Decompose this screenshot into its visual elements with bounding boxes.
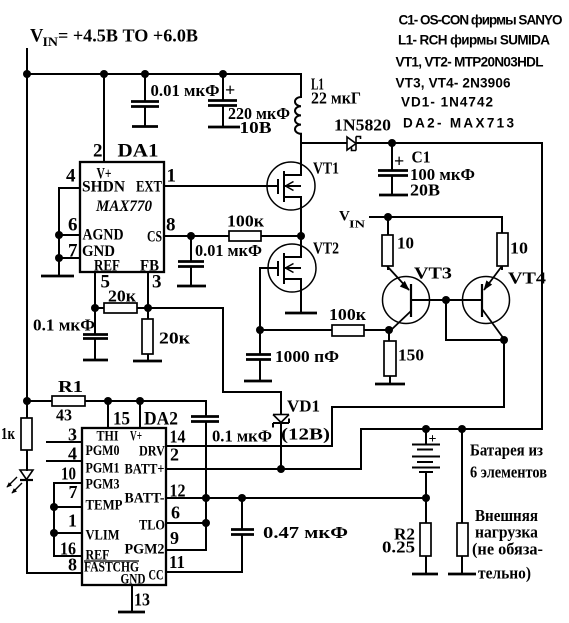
svg-text:C1- OS-CON фирмы SANYO: C1- OS-CON фирмы SANYO xyxy=(399,13,563,28)
svg-text:TLO: TLO xyxy=(139,518,165,534)
svg-text:CC: CC xyxy=(149,568,164,584)
svg-text:DA1: DA1 xyxy=(118,141,159,162)
svg-text:VT1: VT1 xyxy=(313,159,339,178)
svg-text:Батарея из: Батарея из xyxy=(470,441,543,460)
svg-text:100к: 100к xyxy=(329,305,366,324)
svg-text:DRV: DRV xyxy=(139,444,165,460)
svg-text:PGM1: PGM1 xyxy=(86,461,120,477)
svg-text:20к: 20к xyxy=(159,329,190,348)
svg-text:0.25: 0.25 xyxy=(382,538,415,557)
svg-text:VT4: VT4 xyxy=(508,269,547,288)
svg-text:VT3: VT3 xyxy=(414,264,452,283)
svg-text:150: 150 xyxy=(398,346,424,365)
svg-text:(12В): (12В) xyxy=(281,425,330,444)
svg-text:2: 2 xyxy=(170,445,179,465)
svg-text:1: 1 xyxy=(167,166,177,187)
svg-text:BATT-: BATT- xyxy=(125,491,165,507)
svg-text:7: 7 xyxy=(69,482,78,502)
svg-text:GND: GND xyxy=(121,572,146,588)
svg-text:15: 15 xyxy=(113,409,130,430)
svg-text:VLIM: VLIM xyxy=(86,528,120,544)
svg-text:10В: 10В xyxy=(240,118,272,137)
svg-text:14: 14 xyxy=(170,427,186,447)
svg-text:+: + xyxy=(429,432,437,447)
svg-text:DA2- MAX713: DA2- MAX713 xyxy=(403,116,514,131)
svg-text:1: 1 xyxy=(68,511,77,531)
svg-text:MAX770: MAX770 xyxy=(95,198,152,215)
svg-text:= +4.5В ТО +6.0В: = +4.5В ТО +6.0В xyxy=(58,26,198,46)
svg-text:1N5820: 1N5820 xyxy=(334,116,391,135)
svg-text:1к: 1к xyxy=(1,424,15,443)
svg-text:8: 8 xyxy=(68,555,77,575)
svg-text:0.1 мкФ: 0.1 мкФ xyxy=(212,427,272,446)
svg-text:22 мкГ: 22 мкГ xyxy=(311,89,361,108)
svg-text:0.01 мкФ: 0.01 мкФ xyxy=(195,241,262,260)
svg-text:10: 10 xyxy=(397,234,414,253)
svg-text:10: 10 xyxy=(510,239,528,258)
svg-text:6: 6 xyxy=(68,215,78,236)
svg-text:VD1: VD1 xyxy=(287,397,320,416)
svg-text:2: 2 xyxy=(93,141,103,162)
svg-text:0.47 мкФ: 0.47 мкФ xyxy=(263,523,348,542)
svg-text:20к: 20к xyxy=(108,287,136,306)
svg-text:VD1- 1N4742: VD1- 1N4742 xyxy=(401,95,493,110)
svg-text:+: + xyxy=(394,151,404,171)
svg-text:0.01 мкФ: 0.01 мкФ xyxy=(151,81,220,100)
svg-text:12: 12 xyxy=(170,481,186,501)
svg-text:8: 8 xyxy=(166,215,176,236)
svg-text:10: 10 xyxy=(61,464,76,484)
svg-text:3: 3 xyxy=(68,425,77,445)
svg-text:V+: V+ xyxy=(130,429,142,445)
svg-text:100к: 100к xyxy=(227,212,264,231)
svg-text:20В: 20В xyxy=(410,181,440,200)
svg-text:PGM0: PGM0 xyxy=(86,443,120,459)
svg-text:тельно): тельно) xyxy=(478,564,531,583)
svg-text:TEMP: TEMP xyxy=(86,498,123,514)
svg-text:+: + xyxy=(225,80,235,100)
svg-text:CS: CS xyxy=(147,229,162,246)
svg-text:0.1 мкФ: 0.1 мкФ xyxy=(33,316,95,335)
svg-text:6: 6 xyxy=(171,503,180,523)
svg-text:1000 пФ: 1000 пФ xyxy=(275,347,339,366)
svg-text:(не обяза-: (не обяза- xyxy=(472,540,543,559)
svg-text:VT2: VT2 xyxy=(313,239,339,258)
svg-text:C1: C1 xyxy=(412,148,431,167)
svg-text:IN: IN xyxy=(349,220,366,231)
svg-text:6 элементов: 6 элементов xyxy=(470,463,547,482)
svg-text:BATT+: BATT+ xyxy=(125,462,165,478)
svg-text:VT3, VT4- 2N3906: VT3, VT4- 2N3906 xyxy=(396,76,511,91)
svg-text:L1- RCH фирмы SUMIDA: L1- RCH фирмы SUMIDA xyxy=(398,33,550,48)
svg-text:11: 11 xyxy=(169,552,185,572)
svg-text:PGM3: PGM3 xyxy=(86,477,120,493)
svg-text:9: 9 xyxy=(170,528,179,548)
svg-text:13: 13 xyxy=(134,590,150,610)
svg-text:EXT: EXT xyxy=(136,179,162,196)
svg-text:7: 7 xyxy=(68,241,78,262)
svg-text:IN: IN xyxy=(43,35,59,49)
svg-text:R1: R1 xyxy=(58,377,83,396)
svg-text:AGND: AGND xyxy=(83,227,124,244)
svg-text:PGM2: PGM2 xyxy=(125,542,165,558)
svg-text:SHDN: SHDN xyxy=(82,179,125,196)
svg-text:4: 4 xyxy=(66,166,76,187)
svg-text:43: 43 xyxy=(56,406,72,425)
svg-text:VT1, VT2- MTP20N03HDL: VT1, VT2- MTP20N03HDL xyxy=(396,55,544,70)
svg-text:4: 4 xyxy=(68,444,77,464)
svg-text:3: 3 xyxy=(152,272,162,293)
